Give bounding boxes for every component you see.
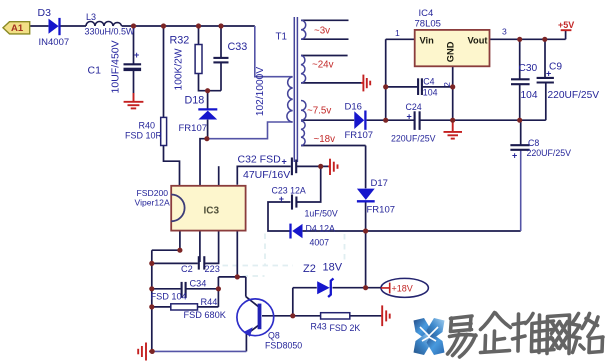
- svg-text:C8: C8: [528, 138, 539, 148]
- svg-text:R40: R40: [139, 121, 156, 131]
- svg-text:C24: C24: [406, 102, 422, 112]
- svg-text:Vout: Vout: [468, 35, 488, 45]
- svg-text:~7.5v: ~7.5v: [307, 106, 331, 117]
- svg-text:D18: D18: [185, 95, 205, 107]
- svg-text:R43: R43: [311, 322, 327, 332]
- svg-text:FR107: FR107: [345, 130, 374, 141]
- svg-text:78L05: 78L05: [415, 19, 441, 30]
- svg-text:D4 12A: D4 12A: [306, 224, 335, 234]
- svg-text:+: +: [512, 151, 517, 161]
- svg-text:FSD 680K: FSD 680K: [184, 310, 227, 320]
- svg-text:47UF/16V: 47UF/16V: [243, 169, 290, 181]
- svg-text:Q8: Q8: [268, 331, 280, 341]
- svg-text:C1: C1: [88, 65, 102, 77]
- svg-text:+18V: +18V: [392, 283, 413, 293]
- svg-text:IC4: IC4: [419, 8, 434, 19]
- svg-text:C34: C34: [190, 279, 207, 289]
- svg-text:Vin: Vin: [420, 35, 435, 45]
- svg-text:C4: C4: [423, 76, 434, 86]
- svg-text:330uH/0.5W: 330uH/0.5W: [85, 27, 136, 37]
- svg-text:R32: R32: [170, 35, 190, 47]
- svg-text:1: 1: [395, 28, 400, 38]
- svg-text:L3: L3: [86, 12, 96, 22]
- svg-text:4007: 4007: [310, 238, 330, 248]
- svg-text:FSD8050: FSD8050: [265, 341, 302, 351]
- svg-text:+: +: [282, 157, 287, 167]
- svg-text:A1: A1: [11, 23, 24, 34]
- svg-text:1uF/50V: 1uF/50V: [305, 209, 338, 219]
- svg-text:10UF/450V: 10UF/450V: [109, 40, 121, 93]
- svg-text:C2: C2: [181, 264, 193, 274]
- svg-text:+: +: [407, 112, 412, 122]
- svg-text:IN4007: IN4007: [39, 37, 70, 48]
- svg-text:220UF/25V: 220UF/25V: [548, 90, 600, 101]
- svg-text:~3v: ~3v: [314, 26, 330, 37]
- svg-text:18V: 18V: [323, 262, 343, 274]
- svg-text:Z2: Z2: [303, 263, 316, 275]
- svg-text:R44: R44: [201, 297, 218, 307]
- svg-text:~24v: ~24v: [312, 60, 334, 71]
- svg-text:+5V: +5V: [558, 20, 574, 30]
- svg-text:100K/2W: 100K/2W: [174, 48, 185, 90]
- svg-text:~18v: ~18v: [314, 134, 336, 145]
- svg-text:D17: D17: [371, 178, 388, 189]
- svg-text:C32 FSD: C32 FSD: [238, 154, 282, 166]
- svg-text:T1: T1: [276, 32, 287, 43]
- svg-text:D16: D16: [345, 102, 362, 113]
- svg-text:+: +: [546, 69, 551, 79]
- svg-text:+: +: [134, 50, 139, 60]
- svg-text:104: 104: [423, 88, 438, 98]
- svg-text:Viper12A: Viper12A: [135, 197, 170, 207]
- svg-text:220UF/25V: 220UF/25V: [527, 148, 572, 158]
- svg-text:D3: D3: [38, 7, 52, 19]
- svg-text:3: 3: [502, 27, 507, 37]
- svg-text:FSD 104: FSD 104: [151, 291, 187, 301]
- svg-text:FR107: FR107: [179, 123, 208, 134]
- svg-text:104: 104: [521, 90, 538, 101]
- svg-text:+: +: [279, 194, 284, 204]
- svg-text:C33: C33: [228, 41, 248, 53]
- svg-text:FSD 2K: FSD 2K: [330, 323, 361, 333]
- svg-text:C30: C30: [519, 63, 538, 74]
- svg-text:IC3: IC3: [204, 206, 220, 217]
- svg-text:GND: GND: [445, 41, 455, 62]
- svg-text:FSD 10R: FSD 10R: [125, 131, 163, 141]
- svg-text:102/1000V: 102/1000V: [255, 67, 266, 116]
- svg-text:220UF/25V: 220UF/25V: [391, 134, 436, 144]
- svg-text:C23 12A: C23 12A: [272, 186, 306, 196]
- svg-text:FR107: FR107: [367, 205, 396, 216]
- svg-text:223: 223: [205, 264, 220, 274]
- svg-text:2: 2: [442, 82, 452, 87]
